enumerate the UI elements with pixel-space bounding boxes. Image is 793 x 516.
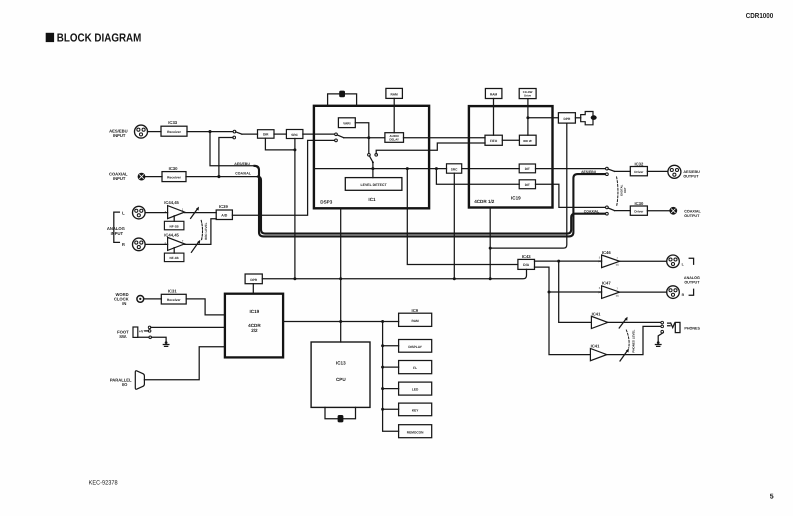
op-amp IC41 lower bbox=[590, 344, 606, 361]
peripheral box DPR2 bbox=[245, 274, 262, 294]
svg-text:NF-1B: NF-1B bbox=[170, 224, 180, 228]
wire IC33 to input switch bbox=[187, 131, 233, 133]
svg-text:COAXIAL: COAXIAL bbox=[684, 210, 701, 214]
svg-text:REMOCON: REMOCON bbox=[407, 430, 424, 434]
svg-text:INPUT: INPUT bbox=[113, 176, 126, 181]
connector XLR J3 analog input L bbox=[133, 206, 146, 219]
op-amp IC41 upper bbox=[591, 311, 607, 328]
svg-text:IC46: IC46 bbox=[602, 250, 612, 255]
connector XLR J4 analog input R bbox=[133, 238, 146, 251]
wire drive junction to DPR bbox=[528, 117, 559, 119]
svg-text:A/D: A/D bbox=[221, 214, 228, 218]
svg-text:Driver: Driver bbox=[634, 170, 644, 174]
display box bbox=[399, 340, 432, 353]
svg-text:AES/EBU: AES/EBU bbox=[581, 170, 597, 174]
wire COAXIAL through thick line bbox=[258, 177, 606, 234]
svg-text:LEVEL DETECT: LEVEL DETECT bbox=[360, 183, 387, 187]
svg-text:Driver: Driver bbox=[634, 209, 644, 213]
svg-text:IDE I/F: IDE I/F bbox=[523, 139, 532, 143]
wire SRC stub to bus bbox=[294, 139, 296, 279]
wire DPR down line bbox=[490, 123, 567, 248]
op-amp IC44,45 L bbox=[164, 200, 184, 219]
wire record branch to FIFO bbox=[376, 143, 485, 154]
svg-text:CPU: CPU bbox=[336, 377, 346, 382]
label ANALOG OUTPUT bracket bbox=[684, 258, 700, 295]
wire S1 throw2 to coax line bbox=[219, 138, 233, 176]
svg-text:BLOCK DIAGRAM: BLOCK DIAGRAM bbox=[57, 32, 142, 45]
svg-text:5: 5 bbox=[599, 286, 601, 290]
connector XLR J8 analog out R bbox=[667, 286, 685, 299]
node 4CDR-DPR junction bbox=[489, 247, 492, 250]
connector drive plug bbox=[575, 112, 596, 125]
svg-text:DSP3: DSP3 bbox=[320, 200, 332, 205]
svg-text:IC44,45: IC44,45 bbox=[164, 200, 179, 205]
label PARALLEL I/O bbox=[110, 378, 132, 388]
svg-text:OUTPUT: OUTPUT bbox=[684, 280, 700, 284]
wire IC9 column bus bbox=[383, 322, 399, 432]
connector XLR J1 AES/EBU input bbox=[135, 125, 148, 138]
fifo box FIFO bbox=[485, 135, 502, 145]
dac IC43 bbox=[518, 254, 535, 270]
wire IC44 L out to A/D bbox=[185, 212, 217, 214]
connector XLR J5 AES/EBU output bbox=[668, 165, 681, 178]
wire XLR R to IC45 bbox=[145, 243, 168, 245]
label COAXIAL OUTPUT bbox=[684, 210, 701, 219]
ram box above 4CDR bbox=[485, 89, 502, 136]
potentiometer phones level L bbox=[619, 317, 627, 328]
crystal X1 on DSP3 bbox=[328, 91, 357, 106]
svg-text:4CDR 1/2: 4CDR 1/2 bbox=[474, 199, 495, 204]
feedback network box L bbox=[164, 216, 184, 230]
svg-text:SRC: SRC bbox=[451, 167, 458, 171]
switch S3 record select bbox=[368, 138, 378, 169]
svg-text:KEY: KEY bbox=[412, 409, 419, 413]
svg-text:7: 7 bbox=[616, 256, 618, 260]
svg-text:IC44,45: IC44,45 bbox=[164, 232, 179, 237]
svg-text:5: 5 bbox=[770, 493, 774, 500]
potentiometer phones level R bbox=[620, 349, 629, 362]
svg-text:IC47: IC47 bbox=[602, 281, 612, 286]
svg-text:I/O: I/O bbox=[122, 382, 128, 387]
wire S4 to IC32 bbox=[615, 170, 631, 172]
potentiometer REC LEVEL R bbox=[191, 240, 200, 253]
node cpu line junctions bbox=[339, 320, 342, 323]
wire to phones L bbox=[559, 261, 592, 322]
op-amp IC44,45 R bbox=[164, 232, 184, 250]
peripheral box DPR bbox=[558, 113, 575, 123]
connector BNC word clock bbox=[137, 296, 144, 303]
ide interface box IDE I/F bbox=[519, 135, 536, 145]
connector phone jack bbox=[658, 321, 680, 342]
phones gang dashed bbox=[626, 330, 629, 348]
fl box bbox=[399, 361, 432, 374]
wire DIT1 to output switch bbox=[536, 168, 607, 170]
wire XLR to IC33 bbox=[148, 131, 162, 133]
wire XLR L to IC44 bbox=[145, 212, 168, 214]
svg-text:PHONES: PHONES bbox=[684, 327, 700, 331]
svg-text:7: 7 bbox=[182, 239, 184, 243]
switch S2 DSP3 source select bbox=[335, 133, 344, 142]
sample rate converter SRC bbox=[286, 130, 303, 139]
svg-text:DISPLAY: DISPLAY bbox=[408, 345, 422, 349]
wire to phones R bbox=[549, 292, 590, 355]
wire A/D out to DSP3 switch bbox=[232, 140, 335, 215]
remocon box bbox=[399, 425, 432, 438]
svg-text:Drive: Drive bbox=[524, 94, 531, 98]
wire foot switch to 4CDR2 bbox=[151, 326, 225, 328]
svg-text:IC19: IC19 bbox=[511, 195, 521, 200]
svg-text:Receiver: Receiver bbox=[167, 298, 181, 302]
svg-text:KEC-92378: KEC-92378 bbox=[89, 479, 118, 486]
wire S5 to IC30 driver bbox=[615, 210, 631, 212]
svg-text:DIT: DIT bbox=[525, 167, 530, 171]
wire DIR to SRC bbox=[274, 133, 286, 135]
svg-text:CDR1000: CDR1000 bbox=[746, 11, 773, 20]
switch S4 AES output select bbox=[606, 167, 615, 175]
ground foot switch bbox=[163, 341, 169, 346]
wire SRC2 stub to bus bbox=[453, 173, 455, 279]
svg-text:Receiver: Receiver bbox=[167, 130, 181, 134]
wire DAC L out bbox=[535, 260, 602, 262]
svg-text:DIT: DIT bbox=[525, 183, 530, 187]
svg-text:IC32: IC32 bbox=[634, 161, 644, 166]
connector D-sub parallel bbox=[135, 371, 144, 390]
svg-text:+V: +V bbox=[139, 329, 144, 333]
wire control bus bbox=[262, 269, 526, 278]
svg-text:Receiver: Receiver bbox=[167, 175, 181, 179]
svg-text:REC LEVEL: REC LEVEL bbox=[204, 222, 208, 239]
op-amp IC47 bbox=[598, 281, 620, 299]
wire playback to DIT2 bbox=[436, 169, 519, 185]
transmitter DIT1 bbox=[519, 164, 535, 173]
svg-text:IC30: IC30 bbox=[169, 166, 179, 171]
feedback network box R bbox=[164, 248, 184, 262]
wire foot sleeve to ground bbox=[138, 337, 166, 342]
wire DIR branch down bbox=[265, 138, 295, 150]
label ANALOG INPUT with bracket bbox=[107, 210, 125, 247]
svg-text:IC1: IC1 bbox=[368, 197, 376, 202]
svg-text:DPR: DPR bbox=[564, 117, 571, 121]
wire IC46 to XLR L bbox=[620, 260, 667, 262]
svg-text:ANALOG: ANALOG bbox=[684, 276, 700, 280]
connector foot switch jack bbox=[133, 326, 152, 339]
svg-text:R: R bbox=[122, 242, 125, 247]
driver IC32 bbox=[630, 161, 647, 175]
label IC19 2/2 bbox=[248, 309, 261, 333]
drive box above 4CDR bbox=[519, 89, 536, 136]
wire BNC to IC31 bbox=[144, 298, 162, 300]
svg-text:OUTPUT: OUTPUT bbox=[683, 174, 699, 178]
wire S2 common main line bbox=[344, 137, 385, 139]
wire playback line bbox=[314, 168, 519, 170]
svg-text:IC43: IC43 bbox=[522, 254, 532, 259]
receiver IC31 bbox=[161, 289, 186, 304]
node IC9 line junction bbox=[381, 320, 384, 323]
svg-text:IC33: IC33 bbox=[168, 120, 178, 125]
wire IC32 to XLR out bbox=[647, 170, 667, 172]
ram box above DSP3 bbox=[386, 88, 403, 132]
receiver IC30 bbox=[162, 166, 186, 182]
wire IC41 up to jack tip bbox=[608, 321, 661, 323]
svg-text:(4): (4) bbox=[598, 260, 601, 263]
switch S1 digital input select bbox=[233, 130, 242, 139]
dir receiver DIR bbox=[258, 130, 275, 139]
svg-text:DPR: DPR bbox=[250, 278, 257, 282]
svg-text:DELAY: DELAY bbox=[389, 138, 399, 142]
switch S5 coax output select bbox=[606, 206, 615, 215]
cpu IC13 box bbox=[311, 342, 370, 407]
led box bbox=[399, 382, 432, 395]
potentiometer REC LEVEL L bbox=[191, 207, 199, 219]
svg-text:IC19: IC19 bbox=[250, 309, 260, 314]
wire DAC R out bbox=[535, 267, 602, 292]
label AES/EBU INPUT bbox=[109, 129, 127, 139]
driver IC30 out bbox=[630, 201, 647, 215]
ram box IC9 bbox=[399, 313, 432, 326]
svg-text:AES/EBU: AES/EBU bbox=[683, 170, 700, 174]
svg-text:RAM: RAM bbox=[411, 319, 419, 323]
node DIR-SRC junction bbox=[293, 148, 296, 151]
level detect box bbox=[345, 169, 402, 191]
svg-text:R: R bbox=[682, 293, 685, 297]
wire playback to DAC feed bbox=[407, 169, 518, 265]
wire IC41 low to jack ring bbox=[607, 326, 661, 354]
svg-text:IC41: IC41 bbox=[592, 311, 602, 316]
crystal X2 on CPU bbox=[325, 407, 356, 422]
svg-text:IC41: IC41 bbox=[591, 344, 601, 349]
node drive junction bbox=[526, 116, 529, 119]
svg-text:PHONES LEVEL: PHONES LEVEL bbox=[632, 329, 636, 352]
svg-text:IC30: IC30 bbox=[634, 201, 644, 206]
ground phones bbox=[655, 341, 661, 346]
svg-text:NF-1B: NF-1B bbox=[170, 256, 180, 260]
wire DIT2 to output switch bbox=[536, 184, 607, 207]
svg-text:FL: FL bbox=[413, 366, 417, 370]
label COAXIAL INPUT bbox=[109, 171, 128, 181]
svg-text:2/2: 2/2 bbox=[251, 328, 258, 333]
svg-text:1: 1 bbox=[182, 207, 184, 211]
svg-text:COAXIAL: COAXIAL bbox=[235, 172, 252, 176]
svg-text:5: 5 bbox=[599, 255, 601, 259]
connector XLR J7 analog out L bbox=[667, 255, 685, 268]
svg-text:IC9: IC9 bbox=[412, 308, 419, 313]
svg-text:3: 3 bbox=[165, 210, 167, 214]
rec level gang dashed bbox=[201, 220, 202, 239]
svg-text:RAM: RAM bbox=[490, 92, 498, 96]
label digital out select bbox=[619, 184, 627, 195]
wire AES through thick line bbox=[210, 132, 255, 166]
svg-text:FIFO: FIFO bbox=[490, 139, 498, 143]
svg-text:(6): (6) bbox=[616, 294, 619, 297]
node DAC R junction bbox=[548, 291, 551, 294]
cdr IC19 4CDR 2/2 box bbox=[225, 294, 283, 358]
wire parallel to 4CDR2 bbox=[144, 347, 225, 380]
svg-text:IC13: IC13 bbox=[336, 361, 346, 366]
svg-text:AES/EBU: AES/EBU bbox=[234, 162, 250, 166]
svg-text:(6): (6) bbox=[616, 264, 619, 267]
key box bbox=[399, 403, 432, 416]
audio delay box bbox=[385, 133, 404, 143]
dsp IC1 DSP3 box bbox=[314, 106, 429, 209]
svg-text:COAXIAL: COAXIAL bbox=[584, 210, 599, 214]
svg-text:L: L bbox=[682, 262, 685, 266]
svg-text:SW.: SW. bbox=[119, 334, 127, 339]
label IC13 CPU bbox=[336, 361, 346, 382]
wire IC31 to 4CDR2 bbox=[186, 299, 225, 315]
switch gang dashed digital out bbox=[617, 177, 618, 206]
connector RCA J6 coaxial output bbox=[670, 207, 677, 214]
wire IC9 peripheral line bbox=[283, 321, 399, 323]
svg-text:IC31: IC31 bbox=[168, 289, 178, 294]
transmitter DIT2 bbox=[519, 180, 535, 189]
wire SRC to DSP3 input switch bbox=[303, 133, 335, 135]
svg-text:IN: IN bbox=[122, 301, 126, 306]
svg-text:DIR: DIR bbox=[263, 133, 269, 137]
svg-text:RAM: RAM bbox=[390, 92, 398, 96]
label AES/EBU OUTPUT bbox=[683, 170, 700, 179]
svg-text:LED: LED bbox=[412, 388, 419, 392]
wire FIFO to IDE bbox=[502, 139, 519, 141]
svg-text:INPUT: INPUT bbox=[113, 133, 126, 138]
svg-text:5: 5 bbox=[165, 242, 167, 246]
cdr IC19 4CDR 1/2 box bbox=[469, 106, 553, 207]
svg-text:VARI: VARI bbox=[343, 122, 350, 126]
svg-text:D/A: D/A bbox=[523, 263, 530, 267]
svg-text:SRC: SRC bbox=[291, 133, 298, 137]
adc IC39 bbox=[216, 204, 232, 219]
node main junction VARI bbox=[367, 136, 370, 139]
wire RCA to IC30 bbox=[145, 176, 162, 178]
src2 box SRC bbox=[447, 164, 462, 173]
label FOOT SW bbox=[117, 330, 129, 340]
node playback junctions bbox=[371, 167, 374, 170]
svg-text:L: L bbox=[122, 210, 125, 215]
svg-text:(4): (4) bbox=[598, 291, 601, 294]
op-amp IC46 bbox=[598, 250, 620, 268]
node DAC L junction bbox=[557, 260, 560, 263]
label WORD CLOCK IN bbox=[114, 292, 129, 306]
svg-text:IC39: IC39 bbox=[219, 204, 229, 209]
wire S1 common to DIR bbox=[242, 133, 258, 135]
wire 4CDR bottom to bus bbox=[489, 208, 491, 279]
svg-text:OUT: OUT bbox=[623, 187, 627, 193]
wire audio delay to FIFO bbox=[404, 137, 486, 139]
connector RCA J2 coaxial input bbox=[138, 173, 145, 180]
node bus junctions bbox=[293, 277, 296, 280]
wire IC47 to XLR R bbox=[620, 291, 667, 293]
wire IC30 to coax bend bbox=[186, 176, 258, 178]
wire IC45 R out to A/D bbox=[185, 219, 217, 245]
svg-text:INPUT: INPUT bbox=[111, 231, 124, 236]
wire IC30 to RCA out bbox=[647, 210, 669, 212]
vari box VARI bbox=[338, 118, 368, 137]
node IC9 taps bbox=[381, 344, 384, 347]
node AES input junction bbox=[208, 130, 211, 133]
svg-text:OUTPUT: OUTPUT bbox=[684, 214, 700, 218]
wire DSP3 to CPU bbox=[340, 208, 342, 342]
node coax junction bbox=[217, 175, 220, 178]
svg-text:7: 7 bbox=[616, 287, 618, 291]
receiver IC33 bbox=[161, 120, 187, 136]
